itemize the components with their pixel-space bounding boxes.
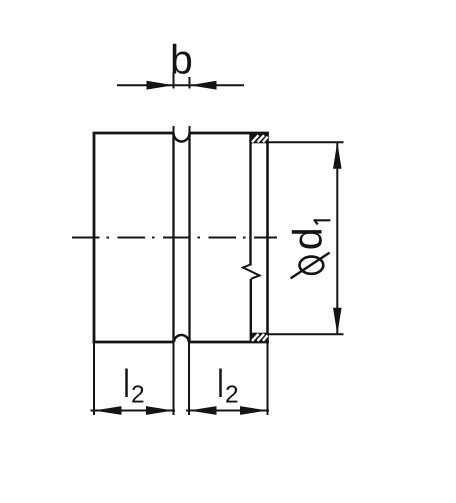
break zigzag on inner wall line	[243, 265, 260, 279]
top wall hatch block	[250, 134, 268, 143]
dimension l2: extension of groove right line	[188, 342, 190, 415]
dimension d1: vertical dimension line	[336, 142, 338, 334]
label l2 right	[219, 369, 222, 398]
slash of the diameter symbol	[291, 253, 330, 279]
groove top notch arc	[174, 133, 190, 142]
section inner wall line (left line of right strip, with break)	[249, 134, 251, 266]
body outline: left edge	[93, 133, 96, 342]
bottom wall hatch block	[250, 333, 268, 342]
dimension l2 left: extension of left body edge	[93, 342, 95, 415]
dimension l2 left: right arrow	[146, 406, 174, 415]
dimension l2 right: left arrow	[189, 406, 217, 415]
body outline: bottom edge right of groove	[190, 341, 269, 344]
dimension l2 left: left arrow	[94, 406, 122, 415]
dimension l2: extension of groove left line	[173, 342, 175, 415]
body outline: right edge	[266, 133, 269, 342]
groove bottom notch arc	[174, 335, 189, 342]
dimension b: right arrow (pointing left at groove)	[190, 81, 217, 90]
dimension d1: top arrow (pointing up)	[333, 142, 342, 169]
dimension l2 left: dimension line	[91, 410, 176, 412]
body outline: top edge right of groove	[190, 132, 269, 135]
groove left line	[172, 134, 174, 341]
label l2 left	[125, 369, 128, 398]
dimension b: extension line left (above body)	[173, 72, 175, 89]
dimension d1: bottom arrow (pointing down)	[333, 308, 342, 335]
dimension l2 right: dimension line	[186, 410, 269, 412]
label ød1 (rotated)	[292, 230, 322, 248]
dimension l2 right: extension of right body edge	[267, 342, 269, 415]
circle of the diameter symbol	[300, 257, 324, 274]
label b	[173, 44, 191, 74]
dimension d1: top extension line	[268, 141, 344, 143]
subscript 1 of d1 (rotated): stem	[314, 219, 331, 221]
dimension b: left arrow (pointing right at groove)	[147, 81, 174, 90]
dimension b: dimension line	[117, 84, 244, 86]
groove right line	[188, 134, 190, 341]
dimension d1: bottom extension line	[268, 333, 344, 335]
centerline (dash-dot axis)	[72, 237, 277, 239]
dimension l2 right: right arrow	[240, 406, 268, 415]
dimension b: extension line right (above body)	[189, 77, 191, 89]
body outline: top edge left of groove	[93, 132, 174, 135]
body outline: bottom edge left of groove	[93, 341, 174, 344]
dimension b: extension stubs just above body	[173, 126, 175, 133]
subscript 1 of d1 (rotated): flag	[314, 220, 318, 225]
